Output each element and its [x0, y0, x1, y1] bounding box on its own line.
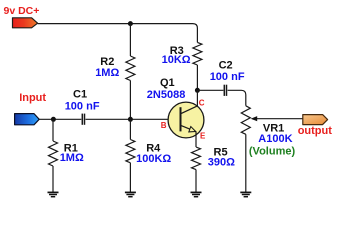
resistor R2: [126, 56, 135, 81]
wire R5 bottom lead: [195, 170, 197, 193]
resistor R3: [193, 42, 202, 65]
wire input to C1: [39, 118, 81, 120]
svg-text:100KΩ: 100KΩ: [136, 153, 171, 165]
9v DC+ supply tag: [13, 18, 38, 28]
svg-text:C2: C2: [219, 60, 233, 72]
svg-text:E: E: [200, 132, 206, 141]
svg-text:A100K: A100K: [258, 133, 292, 145]
svg-text:B: B: [161, 121, 167, 130]
wire emitter lead: [195, 132, 197, 148]
svg-text:Q1: Q1: [160, 77, 175, 89]
resistor R1: [49, 141, 58, 166]
output tag: [303, 115, 328, 125]
node junction R2/R4/base: [128, 117, 133, 122]
Input tag: [15, 114, 40, 125]
wire R4 bottom lead: [129, 163, 131, 193]
wire VR1 bottom lead: [245, 134, 247, 192]
node junction top (R2 tap): [128, 21, 133, 26]
wire R1 top lead: [52, 119, 54, 141]
wire R4 top lead: [129, 119, 131, 139]
resistor R5: [192, 147, 201, 170]
svg-text:1MΩ: 1MΩ: [60, 152, 84, 164]
svg-text:(Volume): (Volume): [249, 146, 296, 158]
svg-text:100 nF: 100 nF: [65, 100, 100, 112]
wire C2 left lead: [197, 89, 223, 91]
wire R2 bottom lead: [129, 81, 131, 120]
ground VR1: [240, 192, 251, 196]
wire C1 to base: [86, 118, 180, 120]
svg-text:2N5088: 2N5088: [147, 89, 186, 101]
wire R3 bottom lead: [196, 65, 198, 90]
node junction collector/R3/C2: [195, 88, 200, 93]
svg-text:100 nF: 100 nF: [210, 71, 245, 83]
wire R2 top lead: [129, 24, 131, 56]
svg-text:390Ω: 390Ω: [208, 156, 235, 168]
svg-text:10KΩ: 10KΩ: [162, 54, 191, 66]
svg-text:output: output: [298, 125, 333, 137]
capacitor C1: [81, 114, 83, 125]
wire C2 right lead with corner into VR1: [228, 90, 246, 106]
wire collector lead: [196, 90, 198, 106]
wire top rail with corner into R3: [38, 24, 198, 43]
capacitor C2: [223, 85, 225, 96]
ground R5: [191, 192, 202, 196]
resistor R4: [126, 140, 135, 163]
wire R1 bottom lead: [52, 166, 54, 192]
wiper arrow: [253, 118, 303, 120]
potentiometer VR1: [241, 106, 250, 135]
ground R1: [48, 192, 59, 196]
node junction input/R1: [51, 117, 56, 122]
svg-text:C: C: [199, 98, 205, 107]
svg-text:C1: C1: [73, 89, 87, 101]
svg-text:9v DC+: 9v DC+: [4, 5, 40, 17]
svg-text:1MΩ: 1MΩ: [95, 67, 119, 79]
svg-text:Input: Input: [19, 92, 46, 104]
transistor Q1: [168, 102, 204, 138]
ground R4: [125, 192, 136, 196]
